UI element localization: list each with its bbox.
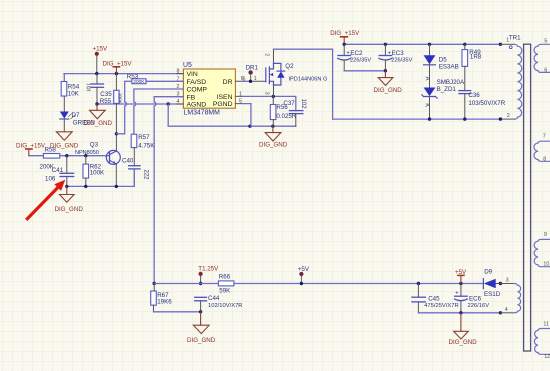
ground DIG_GND (under C44)	[187, 312, 216, 344]
svg-text:+: +	[388, 51, 391, 57]
U5 pin numbers	[177, 69, 246, 105]
wire top rail	[344, 43, 500, 45]
svg-text:FA/SD: FA/SD	[187, 79, 207, 86]
svg-text:C44: C44	[208, 295, 220, 302]
resistor R54	[61, 82, 80, 112]
IC U5 LM3478MM body	[183, 62, 235, 117]
power port +5V (net label style)	[298, 266, 310, 285]
svg-text:B_ZD1: B_ZD1	[437, 86, 457, 93]
svg-text:D5: D5	[439, 56, 447, 63]
svg-text:K: K	[424, 103, 430, 107]
junction R62 bottom	[84, 185, 87, 188]
svg-text:PGND: PGND	[213, 101, 233, 108]
svg-text:C45: C45	[428, 296, 440, 303]
wire ISEN to C37	[243, 96, 296, 110]
junction C41 bottom	[65, 185, 68, 188]
junction PGND at bus	[248, 125, 251, 128]
svg-text:TR1: TR1	[509, 35, 521, 42]
svg-text:FB: FB	[187, 94, 196, 101]
capacitor EC3	[379, 44, 413, 71]
junction R56 at bus	[271, 125, 274, 128]
svg-text:Q3: Q3	[90, 141, 99, 148]
power port DIG_+15V (top right)	[330, 30, 360, 44]
capacitor C44	[195, 295, 243, 312]
power port DIG_+15V (left)	[103, 61, 133, 74]
junction EC3 ground	[384, 69, 387, 72]
junction EC2	[343, 43, 346, 46]
resistor R49	[462, 44, 482, 90]
TR1 secondary 5-6	[534, 38, 550, 73]
junction C44 bottom	[199, 310, 202, 313]
svg-text:AGND: AGND	[187, 101, 207, 108]
svg-text:DIG_GND: DIG_GND	[259, 142, 288, 149]
wire switch-node bus	[333, 118, 501, 120]
svg-text:103/50V/X7R: 103/50V/X7R	[468, 100, 505, 107]
capacitor C35	[87, 74, 112, 104]
wire PGND down	[243, 104, 251, 127]
junction ZD1 bottom	[428, 117, 431, 120]
junction C41 tap	[65, 154, 68, 157]
junction EC6	[459, 282, 462, 285]
U5 pin stubs	[177, 74, 244, 104]
wire EC2-EC3 bottom	[344, 70, 385, 72]
svg-text:EC3: EC3	[392, 50, 405, 57]
svg-text:DIG_GND: DIG_GND	[374, 87, 403, 94]
svg-text:6: 6	[241, 76, 244, 82]
svg-text:12: 12	[544, 354, 550, 360]
junction C45	[417, 282, 420, 285]
svg-text:102: 102	[300, 99, 306, 110]
svg-text:R57: R57	[138, 134, 150, 141]
svg-text:6: 6	[544, 67, 547, 73]
svg-text:+5V: +5V	[298, 266, 310, 273]
svg-text:5: 5	[544, 38, 547, 44]
svg-text:+15V: +15V	[93, 46, 108, 53]
svg-text:7: 7	[543, 134, 546, 140]
svg-text:ES1D: ES1D	[484, 291, 501, 298]
svg-text:ES3AB: ES3AB	[439, 63, 459, 70]
ground DIG_GND (Q3 bus)	[55, 186, 84, 212]
svg-text:226/16V: 226/16V	[468, 303, 490, 309]
svg-text:C40: C40	[122, 157, 134, 164]
junction D5	[428, 43, 431, 46]
resistor R67	[151, 284, 173, 312]
svg-text:10K: 10K	[68, 91, 80, 98]
svg-text:475/25V/X7R: 475/25V/X7R	[424, 303, 458, 309]
junction at +15V stem	[95, 72, 98, 75]
ground DIG_GND (under R56)	[259, 126, 288, 148]
power port T1.25V	[198, 266, 219, 284]
svg-text:COMP: COMP	[187, 87, 208, 94]
wire FB vertical	[154, 97, 183, 284]
svg-text:EC6: EC6	[469, 296, 482, 303]
svg-text:NPN8050: NPN8050	[75, 150, 99, 156]
svg-text:2: 2	[264, 53, 270, 56]
svg-text:11: 11	[543, 321, 549, 327]
capacitor C45	[412, 284, 459, 313]
svg-text:R58: R58	[45, 146, 57, 153]
wire AGND net (pin4 to C35)	[97, 103, 183, 105]
svg-text:8: 8	[543, 157, 546, 163]
resistor R66	[218, 274, 234, 295]
ground DIG_GND (under D7)	[50, 132, 79, 150]
resistor R57	[131, 134, 155, 166]
svg-text:R55: R55	[100, 98, 112, 105]
wire R58 to Q3 base	[60, 155, 110, 157]
svg-text:ISEN: ISEN	[217, 94, 233, 101]
power port DIG_+15V (Q3 area)	[16, 143, 46, 156]
power port +15V	[93, 46, 108, 74]
svg-text:+: +	[455, 290, 458, 296]
wire corner to R54	[63, 74, 65, 82]
junction C35/ground	[95, 102, 98, 105]
capacitor EC6	[455, 284, 490, 313]
svg-text:1R8: 1R8	[470, 54, 482, 61]
wire VIN rail	[64, 73, 183, 75]
capacitor C40	[122, 157, 149, 186]
svg-text:D9: D9	[484, 269, 492, 276]
TR1 pin 3	[499, 278, 515, 286]
wire Q2 drain loop	[274, 49, 333, 119]
svg-text:3: 3	[506, 278, 509, 284]
junction R55/R53 jog	[115, 132, 118, 135]
wire R53 branch down	[116, 81, 126, 134]
svg-text:VIN: VIN	[187, 71, 198, 78]
TVS diode ZD1 SMBJ20A	[422, 79, 465, 119]
svg-text:1: 1	[254, 76, 257, 82]
TR1 secondary 11-12	[534, 321, 550, 360]
U5 pin names	[187, 71, 233, 108]
resistor R55	[100, 74, 123, 151]
svg-text:DIG_GND: DIG_GND	[84, 120, 113, 127]
capacitor C41	[45, 156, 74, 187]
wire R67 to C44 bottom	[154, 311, 201, 313]
svg-text:2: 2	[507, 113, 510, 119]
wire +5V output rail	[418, 283, 483, 285]
svg-text:9: 9	[544, 232, 547, 238]
diode D5 ES3AB	[424, 44, 459, 87]
svg-text:226/35V: 226/35V	[391, 58, 412, 64]
svg-text:DIG_GND: DIG_GND	[187, 337, 216, 344]
svg-text:DIG_+15V: DIG_+15V	[330, 30, 360, 37]
primary winding	[514, 44, 522, 119]
svg-text:226/35V: 226/35V	[350, 58, 371, 64]
resistor R56	[270, 96, 297, 126]
wire to R58	[29, 155, 44, 157]
svg-text:R66: R66	[219, 274, 231, 281]
capacitor C37	[283, 99, 305, 127]
junction AGND branch	[167, 102, 170, 105]
junction EC6 bottom	[459, 311, 462, 314]
svg-text:DIG_GND: DIG_GND	[55, 206, 84, 213]
svg-text:100K: 100K	[90, 170, 105, 177]
svg-text:LM3478MM: LM3478MM	[184, 110, 221, 117]
svg-text:+: +	[346, 51, 349, 57]
svg-text:59K: 59K	[219, 288, 231, 295]
svg-text:C35: C35	[100, 91, 112, 98]
capacitor EC2	[338, 44, 372, 71]
junction ISEN/Q2 source	[272, 95, 275, 98]
svg-text:10: 10	[543, 262, 549, 268]
wire +1.25V rail to right	[234, 283, 419, 285]
resistor R62	[83, 156, 105, 187]
resistor R58	[40, 146, 60, 170]
junction C36 bottom	[463, 117, 466, 120]
svg-text:IPD144N06N G: IPD144N06N G	[289, 77, 328, 83]
ground DIG_GND (EC6)	[449, 313, 478, 346]
annotation red arrow	[27, 180, 65, 219]
svg-text:19K6: 19K6	[157, 299, 172, 306]
junction at DIG_+15V stem	[115, 72, 118, 75]
svg-text:Q2: Q2	[285, 63, 294, 70]
transformer core	[524, 44, 531, 351]
transformer TR1	[499, 35, 531, 351]
diode D9 ES1D	[483, 269, 500, 298]
svg-text:EC2: EC2	[350, 50, 363, 57]
LED D7 GREEN	[60, 112, 95, 132]
svg-text:DR1: DR1	[246, 64, 259, 71]
wire AGND branch to bottom bus	[168, 104, 296, 126]
svg-text:R54: R54	[68, 83, 80, 90]
junction Q3 emitter	[115, 185, 118, 188]
svg-text:222: 222	[143, 170, 149, 181]
power port +5V (red)	[455, 269, 467, 283]
svg-text:106: 106	[45, 175, 56, 182]
resistor R53	[125, 74, 184, 85]
svg-text:C36: C36	[468, 92, 480, 99]
capacitor C36	[459, 91, 506, 120]
svg-text:4.75K: 4.75K	[138, 143, 155, 150]
svg-text:A: A	[424, 77, 430, 81]
TR1 secondary 7-8	[534, 134, 550, 163]
svg-text:T1.25V: T1.25V	[198, 266, 219, 273]
svg-text:DIG_GND: DIG_GND	[449, 339, 478, 346]
svg-text:U5: U5	[183, 62, 192, 69]
svg-text:C41: C41	[52, 167, 64, 174]
junction R62 tap	[84, 154, 87, 157]
junction FB/R67	[153, 282, 156, 285]
junction R49	[463, 43, 466, 46]
svg-text:3: 3	[263, 92, 269, 95]
wire bottom return	[418, 312, 500, 314]
svg-text:200K: 200K	[118, 93, 123, 105]
wire emitter bus	[67, 169, 135, 187]
wire DR net	[243, 80, 266, 82]
junction T1.25V/C44	[199, 282, 202, 285]
TR1 winding 3-4	[514, 284, 520, 313]
wire COMP to R57	[134, 89, 184, 134]
wire FB node to R66	[154, 283, 218, 285]
svg-text:1: 1	[506, 38, 509, 44]
TR1 pin 4	[499, 307, 515, 315]
transistor Q2 IPD144N06N	[263, 49, 327, 96]
svg-text:DR: DR	[223, 79, 233, 86]
junction EC3	[384, 43, 387, 46]
svg-text:R56: R56	[276, 104, 288, 111]
TR1 secondary 9-10	[534, 232, 550, 268]
transistor Q3 NPN8050	[75, 141, 120, 186]
ground DIG_GND (EC caps)	[374, 71, 403, 94]
svg-text:R53: R53	[127, 74, 139, 81]
test point DR1	[246, 64, 259, 83]
ground DIG_GND (under C35)	[84, 104, 113, 127]
svg-text:D7: D7	[72, 112, 80, 119]
svg-text:0.025R: 0.025R	[276, 113, 296, 120]
svg-text:4: 4	[505, 307, 508, 313]
svg-text:102/10V/X7R: 102/10V/X7R	[208, 303, 242, 309]
